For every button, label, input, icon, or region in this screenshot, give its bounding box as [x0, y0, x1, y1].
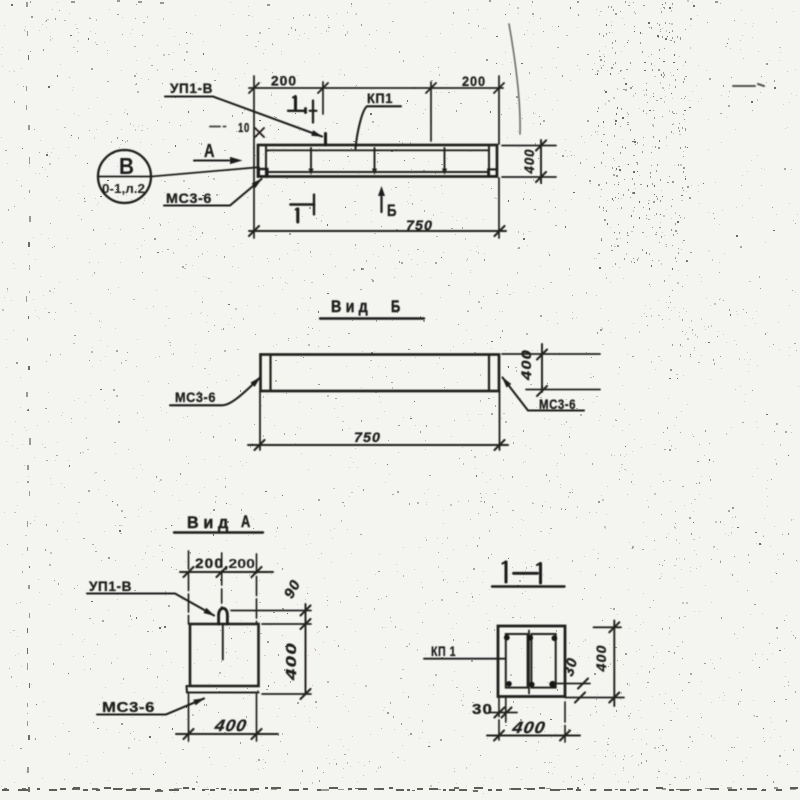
stirrup divider 2 with arrow: [372, 148, 377, 175]
label МС3-6 (view А) with leader arrow: [97, 699, 204, 717]
svg-text:400: 400: [510, 718, 547, 737]
svg-text:МС3-6: МС3-6: [175, 390, 216, 405]
dimension 90: [281, 577, 310, 629]
dimension 200,200 (top of view А): [180, 555, 273, 577]
view arrow Б: [378, 186, 397, 220]
svg-text:200: 200: [462, 73, 486, 89]
lifting loop stub on beam top: [324, 134, 327, 146]
label УП1-В with leader arrow: [165, 81, 322, 137]
dimension 400 (plan, right side): [502, 140, 556, 183]
svg-text:30: 30: [472, 701, 493, 718]
rebar dots: [504, 635, 557, 688]
bottom plate МС3-6 strip: [187, 686, 259, 693]
beam elevation outline: [261, 355, 500, 392]
title 1-1: [492, 562, 565, 587]
label КП1 with leader (section): [424, 644, 505, 659]
svg-text:200: 200: [195, 555, 224, 571]
svg-text:,200: ,200: [224, 556, 255, 571]
dimension 30 (right, cover): [555, 656, 590, 703]
dimension 30 (bottom left, cover): [472, 697, 517, 723]
dimension 400 (right of view А): [262, 624, 311, 699]
extension lines above square: [189, 551, 257, 624]
svg-text:200: 200: [271, 73, 297, 89]
svg-text:УП1-В: УП1-В: [170, 81, 213, 96]
stirrup КП1 (right loop): [531, 634, 555, 688]
middle bar extension line: [528, 631, 530, 694]
svg-text:400: 400: [594, 645, 609, 673]
svg-text:Вид: Вид: [187, 513, 233, 532]
dimension 400 (right of view Б): [502, 344, 600, 396]
label МС3-6 (left) with leader arrow: [170, 378, 260, 406]
svg-text:КП 1: КП 1: [431, 644, 456, 659]
svg-text:Вид: Вид: [331, 297, 372, 316]
svg-text:400: 400: [522, 149, 537, 175]
svg-text:750: 750: [406, 217, 433, 233]
scan crease curve top right: [509, 24, 520, 134]
label УП1-В (view А) with leader arrow: [87, 579, 214, 616]
svg-text:10: 10: [238, 120, 250, 135]
lifting loop УП1-В (view А): [219, 608, 228, 624]
svg-text:МС3-6: МС3-6: [102, 699, 155, 716]
label МС3-6 (plan) with leader arrow: [164, 179, 262, 206]
beam plan outline: [258, 145, 497, 177]
dimension 10 with cross tick: [238, 120, 264, 137]
label МС3-6 (right) with leader arrow: [503, 378, 585, 413]
svg-text:КП1: КП1: [367, 91, 393, 106]
dimension 750 (plan): [249, 217, 506, 236]
svg-text:400: 400: [518, 349, 534, 381]
svg-text:УП1-В: УП1-В: [89, 579, 132, 594]
embedded plate MC3-6 right end (small square): [488, 169, 497, 176]
svg-text:400: 400: [284, 642, 300, 681]
stray dash near (744,85): [733, 84, 764, 86]
extension from loop top to 90 dim: [231, 610, 311, 612]
section square outline: [498, 626, 565, 697]
svg-text:А: А: [241, 512, 254, 531]
stray dash left of А arrow: [210, 126, 226, 128]
svg-text:МС3-6: МС3-6: [166, 191, 212, 206]
view arrow А: [194, 141, 243, 164]
svg-text:750: 750: [354, 429, 381, 445]
dimension line top (200 / 200): [249, 83, 504, 93]
svg-text:А: А: [204, 141, 215, 161]
svg-text:400: 400: [212, 716, 248, 735]
stirrup divider 3 with arrow: [442, 148, 447, 175]
extension lines from top dimension: [254, 76, 499, 238]
label КП1 with leader: [356, 91, 402, 149]
square block (view А): [190, 624, 259, 686]
dimension 400 (bottom of view А): [176, 694, 278, 741]
svg-text:0-1,л.2: 0-1,л.2: [102, 182, 145, 196]
embedded plate MC3-6 left end (small square): [259, 169, 268, 176]
dimension 400 (right of section): [565, 621, 624, 707]
loop anchor leg centreline: [222, 624, 224, 660]
section mark 1 (upper): [288, 96, 317, 123]
dimension 400 (bottom of section): [487, 697, 580, 743]
section mark 1 (lower): [291, 195, 315, 223]
title Вид Б: [320, 297, 424, 319]
detail callout circle В: [98, 150, 259, 203]
svg-text:В: В: [119, 153, 134, 179]
title Вид А: [174, 512, 263, 533]
dimension 750 (view Б): [248, 391, 508, 450]
svg-text:Б: Б: [391, 297, 404, 316]
stirrup КП1 (left loop): [506, 634, 528, 688]
stirrup divider 1 with arrow: [308, 148, 313, 175]
svg-text:Б: Б: [387, 201, 397, 220]
